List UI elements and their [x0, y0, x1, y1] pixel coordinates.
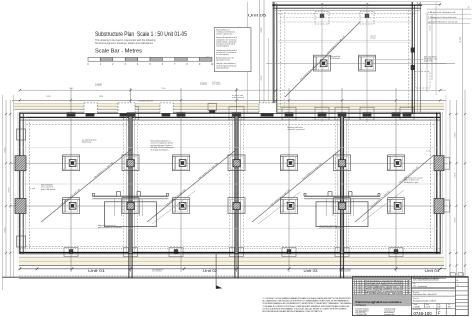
svg-text:2 135: 2 135	[429, 25, 431, 31]
svg-text:ex. wall: ex. wall	[29, 188, 36, 190]
svg-text:grade C35: grade C35	[424, 61, 432, 63]
svg-text:T.O.F. level: T.O.F. level	[212, 82, 220, 84]
svg-text:0748-100: 0748-100	[414, 311, 433, 316]
svg-text:C. COPYRIGHT OF THIS DRAWING R: C. COPYRIGHT OF THIS DRAWING REMAINS WIT…	[263, 297, 351, 300]
svg-text:new svp + gulley: new svp + gulley	[339, 269, 351, 271]
svg-text:4 570: 4 570	[4, 227, 6, 233]
svg-text:9 830: 9 830	[261, 27, 263, 33]
svg-text:10 970: 10 970	[460, 36, 462, 43]
svg-text:DO NOT SCALE FROM THIS DRAWING: DO NOT SCALE FROM THIS DRAWING. IF IN DO…	[263, 307, 348, 310]
svg-text:of all pad foundations: of all pad foundations	[151, 148, 169, 151]
svg-text:ALL DIMENSIONS TO BE CHECKED O: ALL DIMENSIONS TO BE CHECKED ON SITE PRI…	[263, 300, 349, 303]
svg-text:2. Setting out of all new fnds: 2. Setting out of all new fnds to be	[428, 16, 456, 19]
svg-text:pad foundation to SE details: pad foundation to SE details	[320, 227, 344, 230]
svg-text:12.11: 12.11	[358, 280, 362, 282]
svg-text:chk: chk	[457, 285, 459, 287]
svg-text:Plan No: Plan No	[413, 298, 419, 300]
svg-text:2 170: 2 170	[426, 151, 431, 153]
svg-text:10500: 10500	[200, 82, 208, 85]
svg-text:4 570: 4 570	[4, 147, 6, 153]
svg-text:Existing Drawing No - 0748-12: Existing Drawing No - 0748-12	[413, 300, 436, 303]
svg-text:10.10: 10.10	[358, 282, 362, 284]
svg-text:150x100 lintel over: 150x100 lintel over	[138, 99, 153, 102]
svg-text:21.07: 21.07	[358, 293, 362, 295]
svg-text:3 870: 3 870	[46, 96, 50, 98]
svg-text:SE details + spec: SE details + spec	[404, 181, 419, 184]
svg-text:Unit 03: Unit 03	[304, 269, 318, 273]
svg-text:MF: MF	[439, 307, 441, 309]
svg-text:02.08: 02.08	[358, 291, 362, 293]
svg-text:Job: Job	[413, 283, 416, 285]
svg-text:Unit 04: Unit 04	[425, 269, 440, 273]
svg-text:10500: 10500	[95, 83, 103, 86]
svg-text:1. All dims to be checked on s: 1. All dims to be checked on site	[428, 11, 455, 14]
svg-text:Unit 02: Unit 02	[203, 269, 217, 273]
svg-text:3 870: 3 870	[99, 96, 103, 98]
svg-text:Structure/engineers drawings,: Structure/engineers drawings, details an…	[95, 42, 154, 45]
svg-text:agreed with SE prior to start: agreed with SE prior to start on site	[428, 21, 458, 24]
svg-text:18.08: 18.08	[358, 289, 362, 291]
svg-text:MF: MF	[407, 282, 409, 284]
svg-text:JTC - Construction: JTC - Construction	[413, 285, 427, 288]
svg-text:pad foundation to SE details: pad foundation to SE details	[98, 226, 122, 229]
svg-text:to be removed: to be removed	[232, 96, 244, 99]
svg-text:T 01233 622 288: T 01233 622 288	[356, 314, 367, 316]
svg-text:Preliminary issue: Preliminary issue	[365, 293, 403, 295]
svg-text:for sequence of works and all: for sequence of works and all	[216, 44, 235, 46]
svg-text:22.09: 22.09	[358, 285, 362, 287]
svg-text:DH: DH	[448, 307, 450, 309]
svg-text:OF WORKING DRAWINGS. ANY DISCR: OF WORKING DRAWINGS. ANY DISCREPANCIES T…	[263, 302, 352, 305]
svg-text:to SE details: to SE details	[330, 57, 340, 60]
svg-text:7 740: 7 740	[161, 88, 166, 90]
svg-text:TO BE READ IN CONJUNCTION WITH: TO BE READ IN CONJUNCTION WITH ALL OTHER…	[263, 305, 350, 308]
svg-text:By: By	[439, 304, 441, 306]
svg-text:MF: MF	[407, 291, 409, 293]
svg-text:ex. drainage run: ex. drainage run	[152, 269, 164, 271]
svg-text:BUILDING REGULATIONS AND BRITI: BUILDING REGULATIONS AND BRITISH STANDAR…	[263, 310, 323, 313]
svg-text:4 570: 4 570	[9, 187, 11, 193]
svg-text:Unit 05: Unit 05	[248, 14, 266, 18]
svg-text:MF: MF	[407, 280, 409, 282]
svg-text:Scale: Scale	[414, 304, 418, 306]
svg-text:MF: MF	[407, 293, 409, 295]
svg-text:on pad: on pad	[370, 38, 375, 40]
svg-text:4 570: 4 570	[454, 217, 456, 223]
svg-text:Jul 09: Jul 09	[426, 307, 430, 309]
svg-text:Substructure Plan - Units 01-0: Substructure Plan - Units 01-05	[413, 293, 437, 296]
svg-text:pad to SE details: pad to SE details	[41, 188, 55, 191]
svg-text:4 570: 4 570	[454, 172, 456, 178]
svg-text:04.09: 04.09	[358, 287, 362, 289]
svg-text:4 570: 4 570	[454, 132, 456, 138]
svg-text:www.fairclough-: www.fairclough-	[384, 312, 395, 314]
svg-text:Architects: Architects	[356, 304, 367, 307]
svg-text:7 740: 7 740	[69, 88, 74, 90]
svg-text:blocked up: blocked up	[82, 142, 91, 144]
svg-text:MF: MF	[407, 285, 409, 287]
svg-text:Scale Bar - Metres: Scale Bar - Metres	[95, 49, 142, 55]
svg-text:Ch: Ch	[448, 304, 450, 306]
svg-text:Unit 01: Unit 01	[88, 269, 105, 273]
svg-text:retained + protected: retained + protected	[288, 128, 305, 131]
svg-text:Substructure Plan Scale 1 : 5: Substructure Plan Scale 1 : 50 Unit 01-0…	[95, 32, 188, 38]
